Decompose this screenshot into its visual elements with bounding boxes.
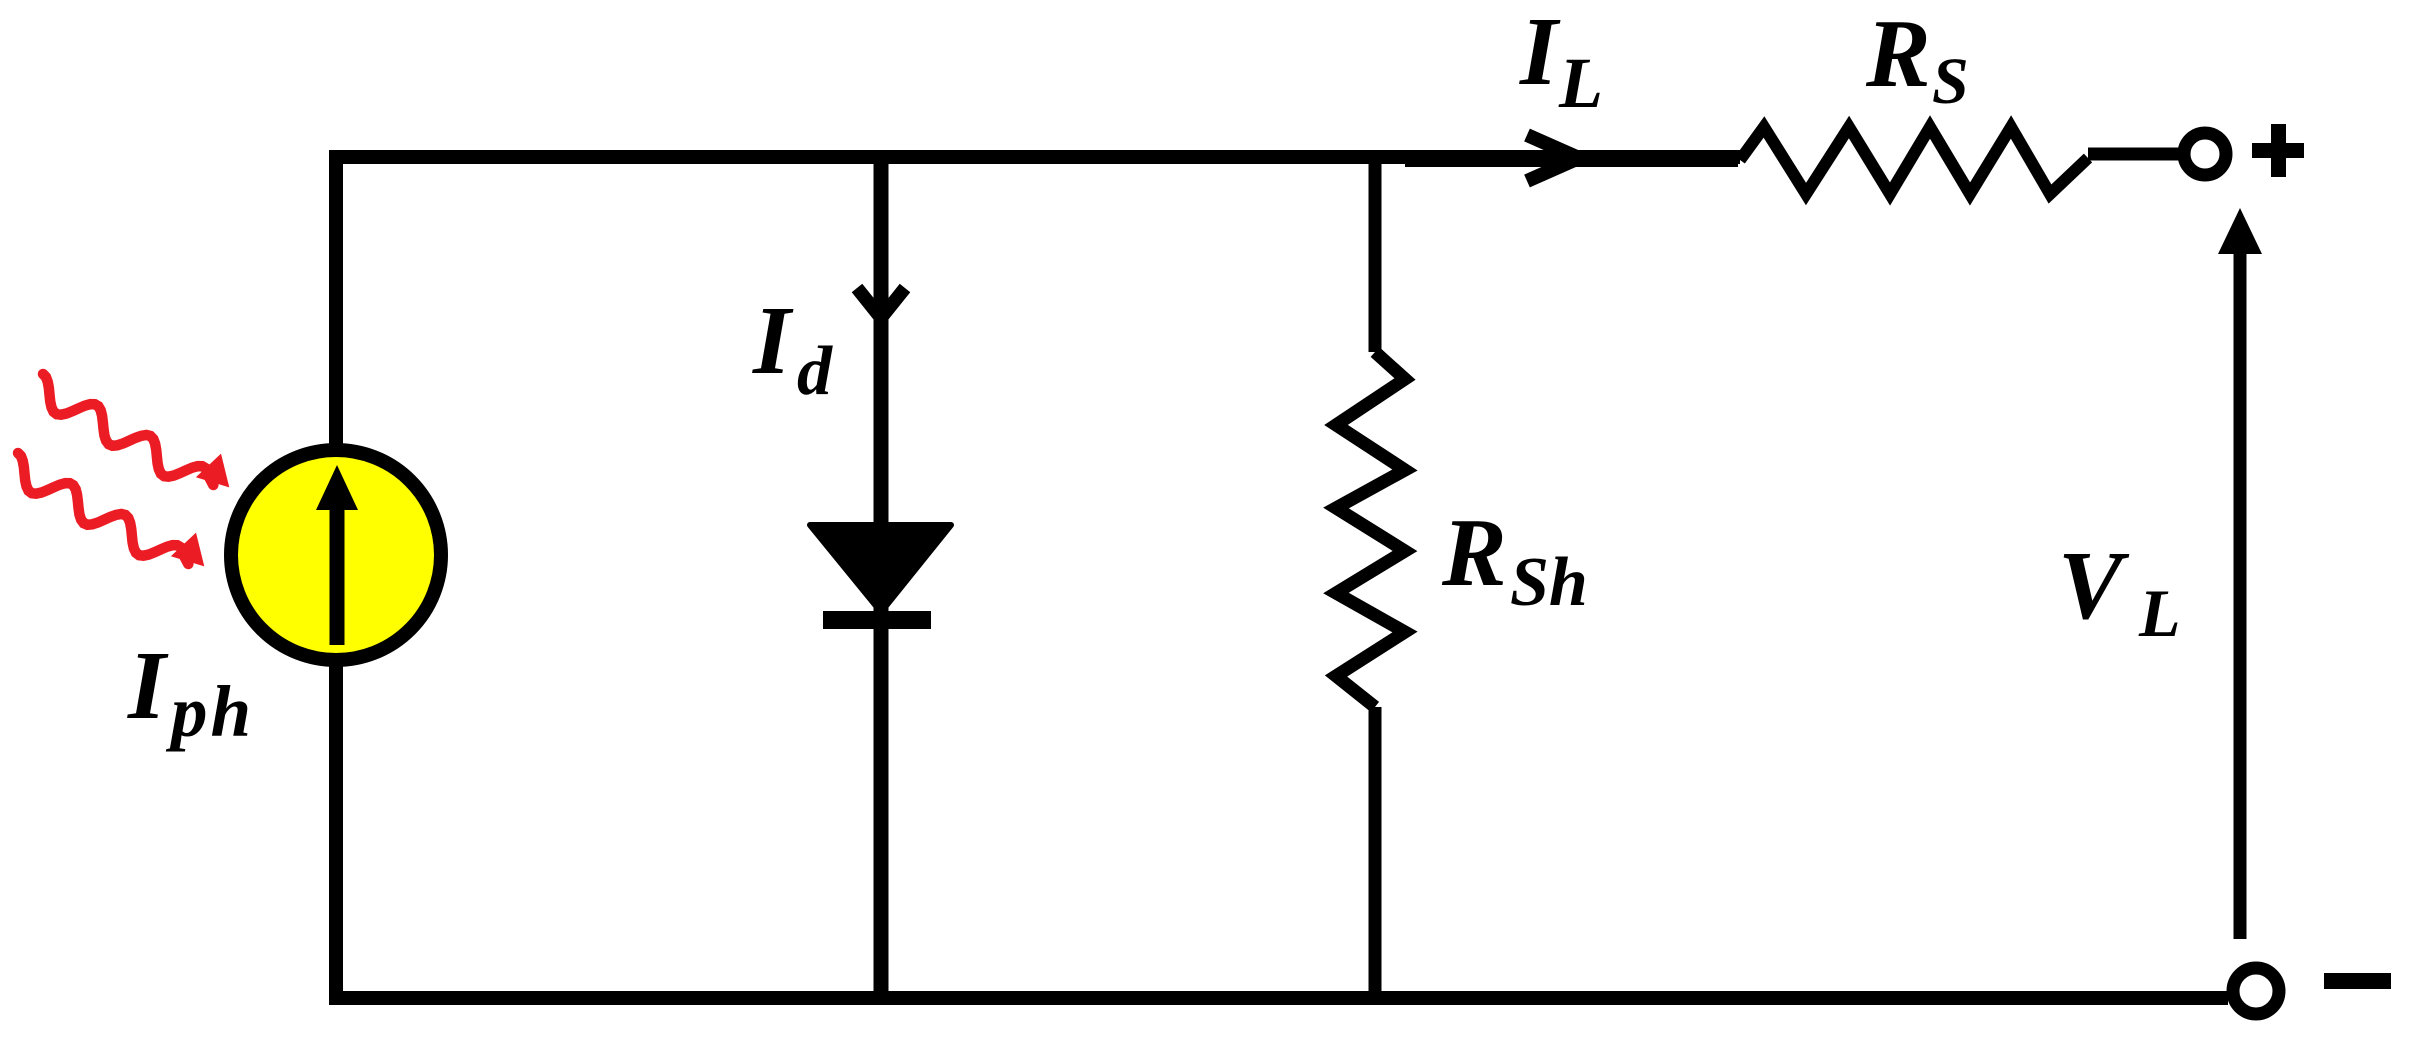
svg-text:L: L <box>1558 43 1603 123</box>
svg-text:ph: ph <box>165 671 254 752</box>
svg-text:Sh: Sh <box>1510 544 1588 621</box>
svg-text:L: L <box>2138 575 2181 651</box>
svg-text:d: d <box>797 333 833 410</box>
svg-text:V: V <box>2058 532 2130 639</box>
svg-text:R: R <box>1865 0 1931 107</box>
svg-text:I: I <box>752 287 794 394</box>
svg-text:I: I <box>127 632 169 739</box>
svg-text:S: S <box>1932 45 1969 118</box>
svg-text:R: R <box>1441 499 1507 606</box>
svg-text:I: I <box>1519 0 1561 105</box>
